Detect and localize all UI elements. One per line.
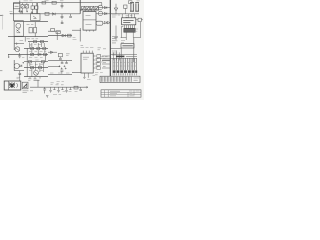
- resistor R6: [45, 12, 49, 15]
- title block column lines: [105, 90, 134, 97]
- wire rail at 36.6: [8, 36, 48, 38]
- resistor R5: [35, 6, 38, 9]
- wire rail right top: [110, 13, 139, 15]
- wire from BZ1 top: [34, 80, 40, 87]
- wire vertical right edge: [133, 38, 135, 62]
- bus divider line: [109, 0, 111, 76]
- label under T1: [23, 91, 34, 93]
- net labels zone y64: [30, 64, 44, 66]
- terminal strip J1: [100, 76, 140, 82]
- net labels under U5 right: [95, 73, 103, 75]
- diode D9: [38, 53, 41, 56]
- IC U5: [81, 53, 93, 73]
- net labels zone y51: [29, 50, 46, 52]
- wire rail at 21.6: [14, 21, 48, 23]
- resistor array row RA4: [95, 6, 98, 10]
- net labels left of U5: [73, 38, 77, 40]
- net labels left cluster: [9, 1, 63, 14]
- wire VR1 to divider: [103, 22, 111, 24]
- capacitor C2: [61, 3, 64, 9]
- capacitor C7: [19, 71, 22, 81]
- diode D1: [52, 13, 55, 16]
- capacitor C9: [61, 20, 64, 23]
- wire vertical node T: [121, 27, 123, 38]
- wire into U5: [72, 72, 81, 74]
- U5 right pin row 3: [93, 63, 110, 65]
- diode D5: [114, 4, 117, 14]
- wire branch at 86.6: [30, 86, 48, 88]
- diode D6: [124, 5, 127, 8]
- CN1 upper wires: [110, 54, 137, 58]
- resistor R3: [25, 5, 28, 8]
- pin labels right of divider lower: [112, 51, 117, 55]
- title block frame: [101, 90, 141, 97]
- wire vertical node I: [29, 42, 31, 48]
- resistor R8: [68, 34, 71, 37]
- wire to divider: [98, 7, 110, 9]
- capacitor C16: [79, 87, 82, 90]
- resistor R26: [74, 86, 78, 89]
- wire vertical node H: [26, 48, 28, 61]
- title block row line 1: [101, 91, 141, 93]
- wire rail right at 35.6: [48, 35, 72, 37]
- optocoupler U2: [31, 14, 40, 21]
- resistor R25: [38, 67, 41, 69]
- wire IC input: [72, 29, 81, 31]
- varistor VR1: [96, 21, 103, 25]
- net labels row: [27, 38, 39, 40]
- U5 right pin row 4: [93, 67, 110, 69]
- net labels on rail: [50, 72, 69, 74]
- J1 tick field: [101, 77, 131, 82]
- net labels bottom: [53, 92, 78, 95]
- wire horizontal at 37.6: [121, 37, 141, 39]
- wire drop node V: [113, 50, 119, 60]
- diode D3: [104, 6, 107, 8]
- crystal X1: [138, 18, 141, 21]
- resistor R14: [51, 29, 55, 32]
- wire vertical node K: [45, 54, 47, 61]
- U5 top pins: [83, 51, 92, 54]
- resistor R28: [97, 59, 101, 62]
- wire ticks rail1 to boxes: [23, 3, 37, 14]
- ground GND5: [65, 87, 68, 92]
- diode D10: [50, 51, 53, 54]
- capacitor C8 plus mark: [20, 10, 22, 12]
- wire feeds left of CN1: [100, 58, 110, 61]
- capacitor C6 electrolytic: [135, 3, 139, 12]
- wire vertical node S: [132, 32, 134, 37]
- net labels zone y70: [29, 70, 43, 72]
- capacitor C3: [61, 14, 64, 19]
- wire branch at 52.2: [48, 51, 57, 53]
- resistor array row RA2: [86, 6, 89, 10]
- U5 label: [83, 57, 89, 59]
- transistor Q1: [16, 23, 21, 28]
- net label mid: [35, 59, 38, 61]
- capacitor C13 electrolytic: [60, 68, 63, 74]
- wire left edge tick: [0, 70, 2, 72]
- wire left stub: [0, 14, 3, 16]
- ground GND1: [18, 53, 21, 58]
- resistor R27: [97, 55, 101, 58]
- resistor R20: [44, 53, 47, 55]
- resistor array row RA3: [91, 6, 94, 10]
- U1 top pins: [85, 10, 94, 12]
- resistor R24: [30, 67, 33, 69]
- wire stub: [14, 43, 24, 45]
- ground GND2: [46, 96, 48, 98]
- pin labels top right of divider: [112, 15, 120, 17]
- wire stubs between rails A: [32, 43, 45, 53]
- resistor R9: [33, 41, 36, 43]
- resistor hatches: [29, 47, 40, 68]
- diode D11: [104, 21, 107, 24]
- net labels above U3: [126, 16, 133, 18]
- wire vertical node D: [56, 32, 58, 40]
- cluster caps near U5: [98, 48, 107, 50]
- wire left stub down: [8, 54, 10, 58]
- resistor array hatch marks: [83, 7, 98, 10]
- resistor R18: [43, 47, 46, 49]
- resistor R23: [41, 61, 44, 63]
- wire vertical node N: [42, 62, 44, 72]
- transistor Q4: [98, 11, 102, 15]
- U3 bottom pins: [124, 25, 134, 29]
- wire branch at 70.6: [14, 70, 24, 72]
- wire rail at 54.4: [8, 53, 48, 55]
- net labels above U5: [81, 45, 94, 47]
- net labels zone y44: [29, 45, 42, 46]
- resistor R30: [97, 67, 101, 70]
- wire U4 left: [110, 47, 121, 49]
- wire vertical node A: [19, 1, 21, 12]
- transistor Q6: [34, 70, 39, 75]
- wire vertical node P: [79, 0, 81, 14]
- IC U4: [121, 44, 134, 48]
- wire right edge vertical: [140, 22, 142, 38]
- wire vertical node B: [37, 3, 39, 14]
- net label: [20, 40, 24, 42]
- buzzer BZ1: [22, 82, 28, 89]
- capacitor C12: [65, 61, 68, 64]
- paper background: [0, 0, 144, 100]
- wire vertical node W: [114, 25, 118, 40]
- net labels right of U5 rows: [96, 58, 107, 66]
- capacitor C1: [18, 10, 23, 14]
- net labels zone y82-85: [51, 83, 64, 85]
- U3 label: [123, 21, 133, 23]
- capacitor C5 electrolytic: [130, 3, 134, 12]
- wire vertical node M: [34, 62, 36, 70]
- CN1 lower pin stubs: [113, 73, 136, 75]
- wire vertical node L: [26, 62, 28, 77]
- resistor R7: [29, 28, 32, 33]
- wire rail at 48.4: [24, 47, 48, 49]
- plus mark: [22, 62, 24, 64]
- wire vertical node F: [79, 28, 81, 42]
- wire vertical node G: [13, 36, 15, 50]
- wire stubs between rails B: [30, 63, 40, 77]
- net labels top right: [121, 41, 125, 43]
- transistor Q2: [15, 47, 20, 52]
- wire vertical node E: [24, 37, 26, 42]
- wire branch at 66.6: [48, 66, 60, 68]
- wire to divider lower: [96, 13, 110, 15]
- inductor L1: [13, 3, 19, 8]
- wire vertical node C: [34, 22, 36, 37]
- net labels above rail: [57, 82, 64, 84]
- resistor R2: [21, 5, 24, 8]
- arrow end: [84, 86, 88, 88]
- wire rail at 41.6: [28, 41, 48, 43]
- title block text: [110, 91, 140, 96]
- net labels on feeds: [101, 57, 108, 62]
- U5 bottom pins: [84, 73, 88, 78]
- wire rail at 76.6: [24, 76, 48, 78]
- resistor R15: [56, 31, 60, 34]
- pin labels right of divider: [112, 37, 118, 43]
- wire bus under row: [80, 9, 99, 11]
- wire vertical node J: [41, 42, 43, 47]
- MCU U3: [122, 18, 136, 25]
- resistor array row RA1: [82, 6, 85, 10]
- zener ZD1: [15, 43, 18, 45]
- resistor R13: [33, 28, 36, 33]
- wire vertical node Q: [121, 14, 123, 18]
- capacitor C10: [59, 57, 62, 59]
- resistor R29: [97, 63, 101, 66]
- wire vertical node O: [13, 60, 15, 71]
- U1 bottom pins: [86, 30, 93, 32]
- net labels right edge: [135, 29, 139, 31]
- resistor R19: [31, 53, 34, 55]
- wire mid rail: [10, 13, 80, 15]
- capacitor C4: [69, 14, 72, 18]
- wire top drop: [101, 3, 103, 6]
- diode D12: [107, 21, 110, 24]
- resistor R10: [40, 41, 43, 43]
- relay K1 body: [14, 21, 23, 37]
- wire rail at 60.6: [48, 60, 72, 62]
- U5 right pin row 1: [93, 55, 110, 56]
- wire rail at 74.6: [48, 74, 72, 76]
- title block row line 2: [101, 94, 141, 96]
- wire top-left hook: [13, 3, 20, 21]
- capacitor C17 plus cluster: [26, 11, 33, 14]
- resistor R4: [31, 6, 34, 9]
- net labels under U5: [87, 75, 95, 79]
- wire branch at 31: [48, 30, 60, 32]
- plus marks caps C13 C14: [59, 65, 66, 67]
- wire ticks under rail: [30, 77, 40, 79]
- net label under C7: [17, 77, 20, 79]
- wire vertical node R: [125, 32, 127, 40]
- fuse F1: [52, 1, 56, 4]
- wire rail at 67.6: [24, 67, 48, 69]
- IC U1: [83, 12, 96, 31]
- diode D13 inline: [42, 2, 46, 5]
- wire vertical node U: [120, 48, 122, 58]
- CN1 pin text speckle: [113, 62, 136, 66]
- ground GND6: [83, 77, 85, 78]
- net labels near R7: [27, 24, 34, 26]
- transistor Q5: [14, 63, 19, 68]
- capacitor C15: [43, 87, 46, 93]
- J1 label text: [134, 78, 139, 80]
- ground GND4: [57, 87, 60, 92]
- CN1 pin wires: [113, 58, 136, 70]
- wire faint left vertical: [2, 15, 4, 30]
- ground GND3: [49, 87, 52, 92]
- resistor R16: [31, 47, 34, 49]
- capacitor ticks on rail: [53, 87, 71, 90]
- capacitor C14 electrolytic: [65, 68, 67, 70]
- net label top corner: [137, 0, 140, 2]
- diode D2: [62, 34, 65, 37]
- connector CN1 label: [116, 55, 124, 57]
- CN1 label band: [113, 70, 138, 73]
- resistor R22: [28, 61, 31, 63]
- net labels right: [66, 54, 70, 56]
- transistor Q3: [98, 5, 102, 9]
- U1 label: [86, 15, 92, 24]
- net labels under rail: [28, 79, 37, 81]
- diode D4: [104, 12, 107, 14]
- wire rail at 61.7: [24, 61, 48, 63]
- diode D8: [19, 65, 22, 67]
- resistor R17: [37, 47, 40, 49]
- wire rail at 87.6: [48, 86, 88, 88]
- U4 label: [122, 45, 132, 47]
- U3 top pins: [129, 14, 135, 18]
- capacitor C11: [61, 61, 64, 64]
- net labels zone y57-59: [22, 57, 43, 59]
- wire top rail VCC: [20, 2, 102, 4]
- U5 right pin row 2: [93, 59, 110, 61]
- resistor R21: [58, 53, 62, 56]
- transformer T1: [4, 81, 21, 90]
- resistor network RN1: [124, 28, 135, 32]
